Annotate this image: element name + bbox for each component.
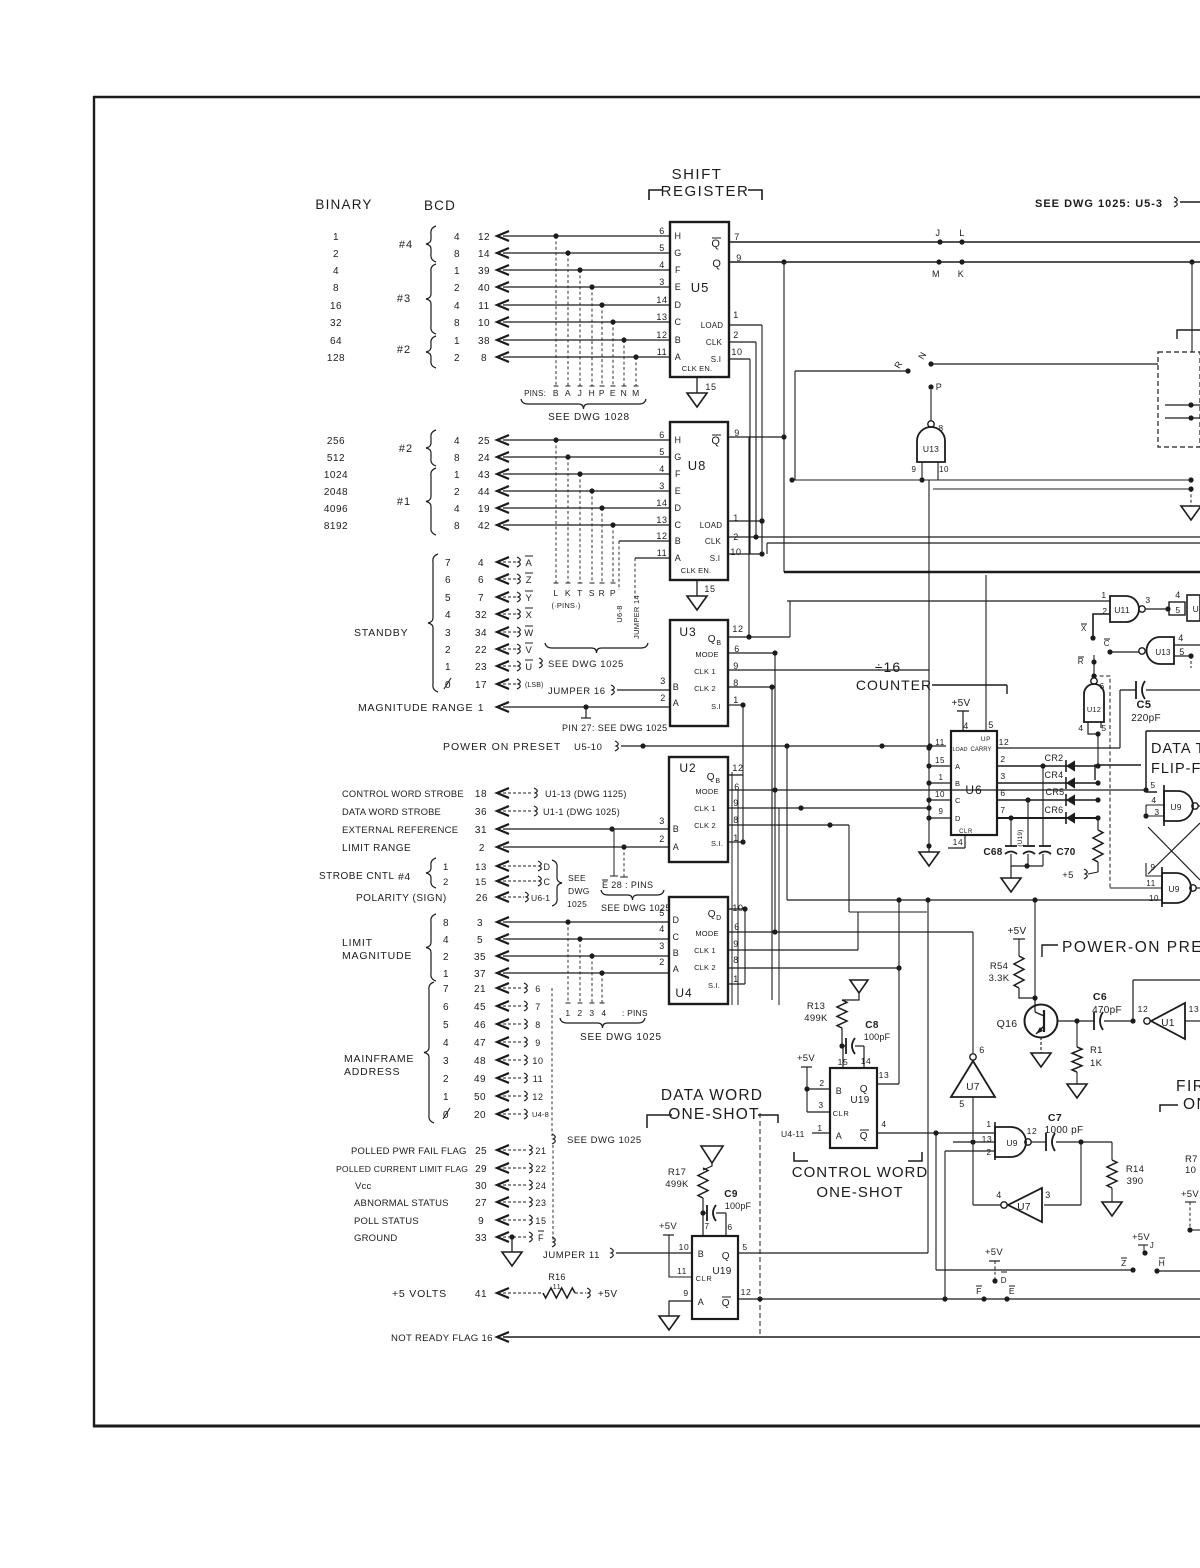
wire stub vertical xyxy=(600,508,605,583)
svg-text:S: S xyxy=(589,588,595,598)
bus wire y900 xyxy=(787,748,1162,903)
gate U9 upper xyxy=(1143,780,1200,826)
svg-text:U5: U5 xyxy=(691,280,710,295)
svg-text:20: 20 xyxy=(474,1110,486,1121)
svg-text:C70: C70 xyxy=(1056,847,1075,858)
svg-text:3: 3 xyxy=(659,941,665,951)
standby dwg note xyxy=(539,658,624,670)
svg-text:CLK: CLK xyxy=(705,537,722,546)
mainframe address row 5 pin 46 xyxy=(443,1019,541,1031)
svg-text:1024: 1024 xyxy=(324,470,348,481)
svg-text:4: 4 xyxy=(454,436,460,447)
svg-text:N: N xyxy=(621,388,628,398)
svg-text:CLK 2: CLK 2 xyxy=(694,963,716,972)
svg-text:U9: U9 xyxy=(1168,884,1179,894)
svg-text:J: J xyxy=(578,388,583,398)
svg-text:CR6: CR6 xyxy=(1045,805,1064,815)
limit magnitude row 1 pin 37 xyxy=(443,968,669,1003)
svg-text:W: W xyxy=(524,628,534,639)
svg-text:2: 2 xyxy=(659,957,665,967)
svg-text:1: 1 xyxy=(443,969,449,980)
svg-text:1: 1 xyxy=(938,773,943,782)
U8 A input wire xyxy=(635,557,670,559)
svg-text:11: 11 xyxy=(1146,879,1156,888)
capacitor C70 xyxy=(1039,766,1076,866)
svg-text:220pF: 220pF xyxy=(1131,713,1161,724)
svg-text:S.I: S.I xyxy=(711,702,721,711)
svg-text:2: 2 xyxy=(659,834,665,844)
svg-text:CR2: CR2 xyxy=(1045,753,1064,763)
svg-text:X: X xyxy=(526,610,533,621)
svg-text:4: 4 xyxy=(454,504,460,515)
svg-text:Q16: Q16 xyxy=(997,1018,1018,1030)
svg-text:4: 4 xyxy=(1151,795,1156,805)
svg-text:10: 10 xyxy=(478,318,490,329)
data transfer flip-flop enclosure xyxy=(1095,731,1200,792)
inverter U7 (upper) xyxy=(951,1045,995,1145)
svg-text:9: 9 xyxy=(683,1288,688,1298)
svg-text:5: 5 xyxy=(1101,723,1106,733)
svg-text:CR5: CR5 xyxy=(1046,787,1065,797)
svg-text:12: 12 xyxy=(999,737,1010,747)
svg-text:5: 5 xyxy=(1150,780,1155,790)
svg-text:SEE DWG 1025: SEE DWG 1025 xyxy=(567,1135,642,1146)
svg-text:42: 42 xyxy=(478,521,490,532)
svg-text:FIRS: FIRS xyxy=(1176,1078,1200,1095)
svg-text:(·PINS·): (·PINS·) xyxy=(551,601,580,610)
svg-text:7: 7 xyxy=(1000,805,1005,815)
standby row 0 pin 17 xyxy=(445,679,543,691)
svg-text:12: 12 xyxy=(1138,1004,1149,1014)
svg-text:1: 1 xyxy=(454,336,460,347)
svg-text:H: H xyxy=(1159,1258,1166,1268)
svg-text:4096: 4096 xyxy=(324,504,348,515)
svg-text:C: C xyxy=(672,932,679,942)
svg-text:12: 12 xyxy=(478,232,490,243)
svg-text:5: 5 xyxy=(659,908,665,918)
svg-text:F: F xyxy=(675,265,681,275)
svg-text:COUNTER: COUNTER xyxy=(856,677,932,693)
row GROUND pin 33 xyxy=(354,1231,544,1244)
svg-text:MAGNITUDE RANGE: MAGNITUDE RANGE xyxy=(358,702,473,714)
label DATA WORD ONE-SHOT xyxy=(647,1087,778,1128)
svg-text:U4-8: U4-8 xyxy=(532,1110,549,1119)
svg-text:4: 4 xyxy=(478,558,484,569)
svg-text:CLK 1: CLK 1 xyxy=(694,804,716,813)
svg-text:5: 5 xyxy=(659,447,665,457)
input row binary 64 / BCD 1 pin 38 xyxy=(330,335,670,347)
svg-text:(LSB): (LSB) xyxy=(525,682,543,689)
svg-text:4: 4 xyxy=(881,1119,886,1129)
U5 pin 15 ground xyxy=(687,377,717,407)
svg-text:45: 45 xyxy=(474,1002,486,1013)
svg-text:T: T xyxy=(577,588,583,598)
svg-text:MODE: MODE xyxy=(695,650,718,659)
resistor R14 390 xyxy=(1081,1142,1144,1216)
shift register U5 xyxy=(656,222,742,377)
+5V to U19 CLR xyxy=(659,1221,692,1277)
svg-text:4: 4 xyxy=(996,1190,1002,1200)
svg-text:B: B xyxy=(715,778,720,785)
R-bar node to U12 xyxy=(1078,657,1110,888)
svg-text:LOAD: LOAD xyxy=(700,521,723,530)
label divide-by-16 COUNTER xyxy=(856,575,1007,731)
wire stub vertical xyxy=(566,457,571,583)
svg-text:24: 24 xyxy=(535,1181,546,1191)
svg-text:CLR: CLR xyxy=(833,1109,850,1118)
input row binary 16 / BCD 4 pin 11 xyxy=(330,300,670,312)
svg-text:1: 1 xyxy=(1101,590,1106,600)
standby row 5 pin 7 xyxy=(445,591,533,604)
svg-text:2: 2 xyxy=(577,1008,582,1018)
wire U8 Q-bar up to U5 Q line xyxy=(728,262,787,572)
svg-text:MODE: MODE xyxy=(695,787,718,796)
pull-up resistor to +5 xyxy=(1062,818,1103,881)
svg-text:A: A xyxy=(675,352,682,362)
svg-text:12: 12 xyxy=(732,763,743,773)
svg-text:4: 4 xyxy=(659,260,665,270)
diode CR4 xyxy=(997,770,1101,789)
vertical channel lines xyxy=(732,772,779,1005)
svg-text:POLL STATUS: POLL STATUS xyxy=(354,1216,419,1227)
svg-text:9: 9 xyxy=(938,807,943,816)
svg-text:Z: Z xyxy=(526,575,532,586)
svg-text:E 28 : PINS: E 28 : PINS xyxy=(602,880,653,890)
svg-text:Q: Q xyxy=(722,1251,730,1262)
svg-text:D: D xyxy=(672,915,679,925)
svg-text:CLK 1: CLK 1 xyxy=(694,946,716,955)
svg-text:8: 8 xyxy=(454,318,460,329)
svg-text:LIMIT RANGE: LIMIT RANGE xyxy=(342,843,411,854)
+5V for R54 xyxy=(1008,926,1027,956)
svg-text:R: R xyxy=(599,588,606,598)
svg-text:F: F xyxy=(538,1233,544,1243)
svg-text:1: 1 xyxy=(454,266,460,277)
svg-text:ON: ON xyxy=(1183,1096,1200,1113)
svg-text:13: 13 xyxy=(879,1070,890,1080)
svg-text:3: 3 xyxy=(659,481,665,491)
svg-text:D: D xyxy=(716,915,722,922)
standby row 3 pin 34 xyxy=(445,626,534,639)
input row binary 1 / BCD 4 pin 12 xyxy=(333,231,670,243)
svg-text:31: 31 xyxy=(475,825,487,836)
Q16 emitter ground xyxy=(1031,1053,1051,1067)
svg-text:CLK EN.: CLK EN. xyxy=(682,364,713,373)
column header BCD xyxy=(424,198,456,213)
svg-text:22: 22 xyxy=(535,1164,546,1174)
svg-text:G: G xyxy=(674,248,682,258)
svg-text:23: 23 xyxy=(535,1198,546,1208)
svg-text:6: 6 xyxy=(445,575,451,586)
U6 pin14 stub xyxy=(948,835,965,848)
group label #2 xyxy=(399,430,436,466)
svg-text:C5: C5 xyxy=(1136,699,1151,711)
svg-text:+5V: +5V xyxy=(1132,1232,1150,1243)
svg-text:Q: Q xyxy=(707,772,715,783)
svg-text:10: 10 xyxy=(935,790,945,799)
svg-text:LIMIT: LIMIT xyxy=(342,937,373,949)
label POWER-ON PRESET xyxy=(1042,939,1200,957)
svg-text:25: 25 xyxy=(475,1146,487,1157)
jumper 16 wire to U3 B xyxy=(548,685,670,697)
shift register U3 xyxy=(660,620,743,726)
svg-text:U1-13 (DWG 1125): U1-13 (DWG 1125) xyxy=(545,789,627,799)
svg-text:8: 8 xyxy=(481,353,487,364)
svg-text:5: 5 xyxy=(443,1020,449,1031)
svg-text:U: U xyxy=(1193,604,1200,614)
wire U5 CLK chain xyxy=(729,342,759,540)
svg-text:11: 11 xyxy=(677,1267,687,1276)
svg-text:9: 9 xyxy=(911,465,916,474)
svg-text:9: 9 xyxy=(1150,862,1155,872)
svg-text:#2: #2 xyxy=(399,443,413,455)
svg-text:JUMPER 14: JUMPER 14 xyxy=(632,595,641,639)
group label #4 xyxy=(399,226,436,262)
U6 carry wire to C5 xyxy=(997,690,1120,748)
svg-text:B: B xyxy=(716,640,721,647)
svg-text:G: G xyxy=(674,452,682,462)
svg-text:E: E xyxy=(675,486,682,496)
svg-text:STROBE CNTL: STROBE CNTL xyxy=(319,871,395,882)
svg-text:+5V: +5V xyxy=(659,1221,677,1232)
U3 SI wire xyxy=(728,702,746,842)
svg-text:11: 11 xyxy=(657,548,668,558)
svg-text:LOAD: LOAD xyxy=(701,321,724,330)
svg-text:2: 2 xyxy=(333,249,339,260)
svg-text:B: B xyxy=(675,536,682,546)
gate U9 lower xyxy=(1110,862,1200,907)
+5V right edge xyxy=(1181,1189,1200,1233)
svg-text:SEE DWG 1025: U5-3: SEE DWG 1025: U5-3 xyxy=(1035,198,1163,210)
svg-text:2: 2 xyxy=(986,1147,991,1157)
diode CR5 xyxy=(997,787,1101,806)
row V&#8203;cc pin 30 xyxy=(355,1180,547,1192)
pin letters L K T S R P xyxy=(553,588,616,598)
svg-text:10: 10 xyxy=(732,903,743,913)
long vertical channel (data word) xyxy=(759,1113,761,1337)
power on preset wire to U6 LOAD xyxy=(443,741,946,753)
mainframe address row 6 pin 45 xyxy=(443,1001,541,1013)
U3 CLK1 wire xyxy=(728,669,929,671)
svg-text:MAGNITUDE: MAGNITUDE xyxy=(342,950,412,962)
svg-text:S.I: S.I xyxy=(710,554,720,563)
U2 CLK2 wire xyxy=(728,822,849,912)
input row binary 2048 / BCD 2 pin 44 xyxy=(324,486,670,498)
not ready flag row xyxy=(391,1332,1200,1344)
svg-text:M: M xyxy=(932,269,940,279)
right edge ground drop xyxy=(1181,489,1200,520)
svg-text:D: D xyxy=(674,300,681,310)
svg-text:7: 7 xyxy=(734,232,740,242)
svg-text:512: 512 xyxy=(327,453,345,464)
group label #1 xyxy=(397,468,436,535)
connector line y1270 xyxy=(936,1258,1136,1273)
brace under group 2 letters xyxy=(545,643,648,653)
svg-text:4: 4 xyxy=(454,232,460,243)
svg-text:46: 46 xyxy=(474,1020,486,1031)
svg-text:A: A xyxy=(955,762,961,771)
svg-text:9: 9 xyxy=(478,1216,484,1227)
svg-text:R1: R1 xyxy=(1090,1045,1103,1056)
svg-text:4: 4 xyxy=(963,721,969,731)
svg-text:2: 2 xyxy=(660,693,666,703)
svg-text:1: 1 xyxy=(443,1092,449,1103)
svg-text:23: 23 xyxy=(475,662,487,673)
svg-text:43: 43 xyxy=(478,470,490,481)
svg-text:E: E xyxy=(675,282,682,292)
U4 QD wire xyxy=(728,906,748,984)
pin joiner box 4/5 xyxy=(1169,590,1185,615)
svg-text:A: A xyxy=(673,698,680,708)
inverter U1 xyxy=(1138,1003,1200,1039)
staircase wire y912 xyxy=(849,911,927,913)
wire U8 CLK bus xyxy=(728,536,1200,538)
U6 +5V supply xyxy=(952,698,971,731)
wire U5 Q-bar output to connectors J/L xyxy=(729,228,1200,245)
svg-text:16: 16 xyxy=(330,301,342,312)
input row binary 8 / BCD 2 pin 40 xyxy=(333,282,670,294)
svg-text:64: 64 xyxy=(330,336,342,347)
svg-text:5: 5 xyxy=(959,1099,965,1109)
capacitor C68 xyxy=(983,818,1017,866)
svg-text:DATA WORD: DATA WORD xyxy=(661,1087,763,1104)
svg-text:U4: U4 xyxy=(675,986,692,1000)
svg-text:J: J xyxy=(1150,1241,1155,1250)
svg-text:JUMPER 16: JUMPER 16 xyxy=(548,686,606,697)
svg-text:E: E xyxy=(610,388,616,398)
svg-text:Q: Q xyxy=(711,238,720,250)
svg-text:H: H xyxy=(674,435,681,445)
svg-text:V​cc: V​cc xyxy=(355,1181,371,1192)
+5 volts row with R16 xyxy=(392,1272,618,1300)
svg-text:CR4: CR4 xyxy=(1045,770,1064,780)
svg-text:14: 14 xyxy=(656,295,667,305)
svg-text:5: 5 xyxy=(477,935,483,946)
input row binary 128 / BCD 2 pin 8 xyxy=(327,352,670,364)
svg-text:U13: U13 xyxy=(1155,648,1171,657)
mainframe address row 7 pin 21 xyxy=(443,983,541,995)
U19 Q output wire xyxy=(738,900,928,1253)
svg-text:1: 1 xyxy=(817,1123,822,1133)
svg-text:R: R xyxy=(1078,657,1084,666)
svg-text:R17: R17 xyxy=(668,1167,686,1178)
svg-text:H: H xyxy=(674,231,681,241)
svg-text:8: 8 xyxy=(535,1020,541,1030)
svg-text:+5V: +5V xyxy=(952,698,971,709)
capacitor C6 470pF xyxy=(1092,991,1136,1030)
svg-text:U19: U19 xyxy=(712,1266,731,1277)
svg-text:6: 6 xyxy=(535,984,541,994)
svg-text:C7: C7 xyxy=(1048,1112,1062,1124)
limit magnitude row 4 pin 5 xyxy=(443,934,669,1003)
svg-text:ONE-SHOT: ONE-SHOT xyxy=(816,1184,903,1201)
svg-text:17: 17 xyxy=(475,680,487,691)
connector P to gate U13 xyxy=(928,382,942,421)
control word one-shot U19 xyxy=(817,1056,889,1148)
svg-text:4: 4 xyxy=(601,1008,606,1018)
svg-text:Q: Q xyxy=(711,435,720,447)
svg-text:A: A xyxy=(526,558,533,569)
standby row 7 pin 4 xyxy=(445,556,533,569)
svg-text:UP: UP xyxy=(981,736,991,743)
group label #2 (rows 64/128) xyxy=(397,336,436,368)
svg-text:13: 13 xyxy=(475,862,487,873)
note (PINS) under letters xyxy=(551,601,580,610)
capacitor C9 100pF xyxy=(703,1189,752,1236)
gate U9 (one-shot) xyxy=(982,1119,1038,1160)
svg-text:EXTERNAL REFERENCE: EXTERNAL REFERENCE xyxy=(342,825,458,836)
wire U5 LOAD to U8 LOAD xyxy=(729,325,765,543)
svg-text:C68: C68 xyxy=(983,847,1002,858)
svg-text:4: 4 xyxy=(454,301,460,312)
svg-text:FLIP-F: FLIP-F xyxy=(1151,761,1200,777)
svg-text:4: 4 xyxy=(445,610,451,621)
svg-text:3: 3 xyxy=(659,816,665,826)
U8 B input wire xyxy=(619,540,670,542)
svg-text:14: 14 xyxy=(656,498,667,508)
svg-text:50: 50 xyxy=(474,1092,486,1103)
svg-text:18: 18 xyxy=(475,789,487,800)
svg-text:P: P xyxy=(936,382,943,392)
svg-text:J: J xyxy=(935,228,940,238)
svg-text:C8: C8 xyxy=(865,1020,879,1031)
svg-text:F: F xyxy=(675,469,681,479)
svg-text:B: B xyxy=(673,948,680,958)
input row binary 4 / BCD 1 pin 39 xyxy=(333,265,670,277)
svg-text:CLR: CLR xyxy=(696,1274,713,1283)
control U19 Q-bar output xyxy=(877,1130,995,1270)
diode CR2 xyxy=(997,753,1101,772)
svg-text:34: 34 xyxy=(475,628,487,639)
input row binary 512 / BCD 8 pin 24 xyxy=(327,452,670,464)
pin letters PINS: B A J H P E N M xyxy=(524,388,640,398)
wire U5 Q output to connectors M/K xyxy=(729,259,1200,279)
svg-text:#2: #2 xyxy=(397,344,411,356)
svg-text:6: 6 xyxy=(727,1222,732,1232)
svg-text:REGISTER: REGISTER xyxy=(661,183,750,200)
svg-text:128: 128 xyxy=(327,353,345,364)
svg-text:22: 22 xyxy=(475,645,487,656)
svg-text:10: 10 xyxy=(532,1056,543,1066)
gate U12 xyxy=(1078,655,1106,766)
svg-text:32: 32 xyxy=(330,318,342,329)
wire stub vertical from node H xyxy=(590,287,595,386)
svg-text:B: B xyxy=(836,1086,843,1096)
svg-text:14: 14 xyxy=(478,249,490,260)
svg-text:S.I.: S.I. xyxy=(708,981,720,990)
wire stub vertical from node P xyxy=(600,305,605,386)
svg-text:U5-10: U5-10 xyxy=(574,742,602,753)
svg-text:38: 38 xyxy=(478,336,490,347)
standby row 1 pin 23 xyxy=(445,660,533,673)
svg-text:CLK EN.: CLK EN. xyxy=(681,566,712,575)
wire bus y489 xyxy=(933,486,1194,491)
U19 A input ground xyxy=(659,1301,692,1330)
page frame top xyxy=(93,96,1200,99)
svg-text:POWER-ON PRES: POWER-ON PRES xyxy=(1062,939,1200,956)
svg-text:3: 3 xyxy=(1000,771,1005,781)
control word strobe row xyxy=(342,788,627,800)
U4 MODE wire to U7 xyxy=(728,929,973,1053)
capacitor C5 220pF xyxy=(1120,681,1200,724)
svg-text:10: 10 xyxy=(1149,894,1159,903)
svg-text:U1: U1 xyxy=(1161,1018,1175,1029)
zero slash xyxy=(443,1108,450,1119)
svg-text:15: 15 xyxy=(704,584,715,594)
one-shot U19 (data word) xyxy=(677,1236,751,1319)
svg-text:SEE DWG 1025: SEE DWG 1025 xyxy=(580,1032,662,1043)
U11 pin2 from X-bar node xyxy=(1081,614,1110,641)
